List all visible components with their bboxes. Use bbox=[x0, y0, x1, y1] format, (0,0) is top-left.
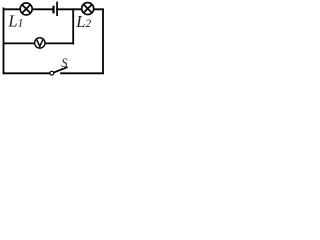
svg-text:S: S bbox=[61, 56, 68, 70]
